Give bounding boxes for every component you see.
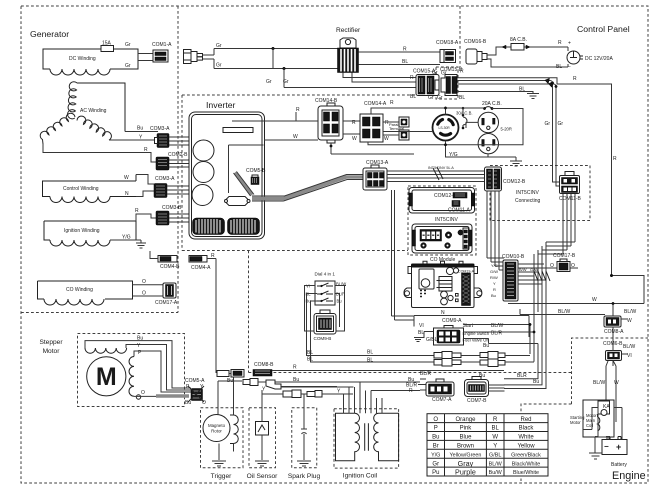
COM15-B dashed box: [436, 67, 458, 99]
svg-text:+: +: [616, 442, 621, 452]
svg-text:Gr: Gr: [283, 79, 289, 85]
oil sensor wires and ground: [261, 390, 263, 460]
wires between bullet groups: [461, 356, 534, 363]
LEGEND-TABLE: [427, 414, 548, 477]
svg-text:Y: Y: [137, 343, 141, 349]
rectifier output wires: [359, 52, 441, 65]
svg-text:+: +: [568, 41, 571, 47]
MID-WIRES: [307, 276, 547, 389]
ground battery: [589, 437, 602, 460]
svg-text:W: W: [592, 297, 597, 303]
svg-text:Bu: Bu: [483, 343, 489, 349]
control winding coil: [50, 197, 110, 203]
display unit 2: [412, 224, 472, 253]
svg-text:COM12-B: COM12-B: [503, 179, 526, 185]
small circle terminal: [136, 395, 140, 399]
circle 3: [192, 185, 213, 206]
svg-text:BL: BL: [367, 350, 373, 356]
generator section border: [21, 6, 178, 313]
trigger coil: [230, 415, 238, 444]
svg-text:G/BL: G/BL: [426, 337, 438, 343]
rectifier component: [338, 38, 359, 73]
svg-text:COM8-A: COM8-A: [604, 329, 624, 335]
trigger wires and ground: [218, 377, 234, 460]
svg-text:Bu: Bu: [137, 126, 143, 132]
connector COM7-A: [426, 379, 454, 396]
svg-text:Yellow/Green: Yellow/Green: [450, 452, 482, 458]
displays dashed box: [408, 186, 476, 255]
svg-text:Gr: Gr: [441, 71, 447, 77]
ENGINE-SWITCH: [414, 316, 538, 350]
svg-text:R: R: [613, 156, 617, 162]
ignition coil core: [365, 423, 369, 451]
connector COM4-A: [189, 256, 207, 263]
svg-text:White: White: [518, 435, 534, 441]
svg-text:Magneto: Magneto: [208, 423, 226, 428]
svg-text:COM5-B: COM5-B: [246, 168, 266, 174]
grille 2: [228, 218, 260, 235]
svg-text:Bu: Bu: [432, 435, 439, 441]
spark plug cap connector: [266, 380, 337, 389]
wire Gr top run: [214, 48, 338, 50]
CO-MODULE: [404, 257, 482, 316]
receptacle LS-30R: [433, 115, 459, 141]
svg-text:15A: 15A: [102, 41, 112, 47]
svg-text:Stepper: Stepper: [39, 339, 63, 346]
svg-text:Blue/White: Blue/White: [513, 470, 539, 476]
wire from COM4-A down: [207, 259, 216, 374]
flat connector pair above trigger: [217, 370, 244, 378]
inverter body: [189, 112, 265, 239]
BLR long wire: [370, 370, 504, 372]
svg-text:BL: BL: [367, 358, 373, 364]
svg-text:8A C.B.: 8A C.B.: [510, 37, 527, 43]
wire R ignition: [136, 214, 156, 221]
svg-text:Y/G: Y/G: [431, 452, 440, 458]
svg-text:20A C.B.: 20A C.B.: [482, 101, 502, 107]
svg-text:R: R: [296, 107, 300, 113]
svg-text:COM8-B: COM8-B: [254, 362, 274, 368]
svg-text:R: R: [573, 76, 577, 82]
GENERATOR-SECTION: [38, 41, 190, 307]
wire Bu: [125, 131, 158, 133]
svg-text:Bu: Bu: [479, 373, 485, 379]
ignition winding coil: [50, 240, 110, 246]
wire R over receptacles: [371, 108, 433, 135]
connector COM12-B: [485, 167, 502, 191]
wires inverter to COM14-B: [264, 112, 318, 140]
svg-text:BL: BL: [307, 357, 313, 363]
CO winding box: [38, 281, 133, 299]
svg-text:COM9-A: COM9-A: [442, 318, 462, 324]
svg-text:INT5CINV: INT5CINV: [435, 217, 458, 223]
circle 1: [193, 140, 214, 161]
AC winding right diagonal coil: [77, 116, 111, 140]
COM13-AREA: [363, 160, 487, 320]
svg-text:COM7-B: COM7-B: [467, 398, 487, 404]
wire W: [136, 175, 154, 185]
DISPLAYS: [409, 188, 475, 254]
svg-text:Bu: Bu: [185, 400, 191, 406]
svg-text:BL/W: BL/W: [624, 309, 637, 315]
wire W down from long run: [612, 304, 614, 315]
ENGINE-AREA: [534, 330, 636, 459]
svg-text:Green/Black: Green/Black: [511, 452, 541, 458]
circle 2: [193, 162, 214, 183]
svg-text:Gr: Gr: [266, 79, 272, 85]
TOP-HARNESS: [184, 37, 618, 276]
svg-text:COM9-B: COM9-B: [314, 336, 332, 341]
svg-text:W: W: [352, 136, 357, 142]
svg-text:Control Winding: Control Winding: [63, 186, 99, 192]
svg-text:AC Winding: AC Winding: [80, 108, 107, 114]
svg-text:Gr: Gr: [216, 63, 222, 69]
svg-text:Purple: Purple: [455, 468, 476, 477]
svg-text:R: R: [293, 365, 297, 371]
CO winding coil: [44, 299, 104, 305]
svg-text:COM2-B: COM2-B: [168, 152, 188, 158]
svg-text:Rotor: Rotor: [211, 429, 222, 434]
COM7-CONNECTORS: [406, 371, 505, 404]
wire Y/G run: [413, 153, 415, 155]
svg-text:Gr: Gr: [437, 95, 443, 101]
svg-text:COM1-A: COM1-A: [152, 42, 172, 48]
ground control panel: [510, 157, 522, 166]
svg-text:Trigger: Trigger: [211, 473, 232, 480]
oval connector on inverter bottom: [225, 197, 251, 206]
wires O to COM17-A: [133, 285, 166, 296]
svg-text:Y/G: Y/G: [449, 152, 458, 158]
svg-text:Rectifier: Rectifier: [336, 27, 361, 34]
wires to COM1-A: [138, 54, 153, 61]
svg-text:Motor: Motor: [43, 348, 61, 355]
svg-text:COM6-B: COM6-B: [603, 341, 623, 347]
svg-text:BL/W: BL/W: [558, 309, 571, 315]
svg-text:Spark Plug: Spark Plug: [288, 473, 321, 480]
svg-text:BL/W: BL/W: [489, 461, 503, 467]
svg-text:W: W: [627, 318, 632, 324]
svg-text:CO Module: CO Module: [430, 257, 456, 263]
svg-text:COM17-A: COM17-A: [155, 300, 178, 306]
DC winding coil: [50, 69, 110, 75]
svg-text:COM17-B: COM17-B: [553, 253, 576, 259]
svg-text:O: O: [142, 291, 146, 297]
svg-text:Bu: Bu: [533, 379, 539, 385]
connector COM8-B mate: [253, 370, 272, 377]
connector COM17-A: [163, 283, 176, 298]
svg-text:Yellow: Yellow: [517, 444, 535, 450]
svg-text:BL/R: BL/R: [491, 331, 503, 337]
svg-text:BL: BL: [418, 330, 424, 336]
svg-text:COM10-B: COM10-B: [502, 254, 525, 260]
svg-text:DC Winding: DC Winding: [69, 56, 96, 62]
hatch marks on bundle: [433, 167, 443, 180]
svg-text:Black/White: Black/White: [512, 461, 540, 467]
svg-text:COM14-A: COM14-A: [364, 101, 387, 107]
AC winding left diagonal coil: [40, 113, 75, 144]
svg-text:Bu/W: Bu/W: [489, 470, 503, 476]
svg-text:R/W: R/W: [490, 275, 498, 280]
svg-text:M: M: [96, 363, 117, 391]
wires down to motor: [605, 361, 616, 423]
BL wires from dial down: [307, 294, 435, 363]
trigger dashed box: [201, 408, 244, 468]
svg-text:Gr: Gr: [428, 95, 434, 101]
svg-text:Generator: Generator: [30, 29, 69, 39]
svg-text:G/W: G/W: [490, 269, 498, 274]
stepper motor dashed box: [78, 334, 185, 407]
svg-text:O: O: [433, 417, 438, 423]
RIGHT-WIRING: [485, 167, 645, 347]
wires from COM13-A down: [392, 190, 415, 320]
svg-text:INT5CINV 5L A: INT5CINV 5L A: [428, 166, 454, 170]
thick bundle from COM5-B down: [235, 173, 252, 196]
connector COM8-A: [604, 314, 627, 347]
oil sensor dashed box: [249, 408, 276, 468]
mid-bottom section border: [249, 251, 572, 373]
svg-text:COM3-A: COM3-A: [155, 176, 175, 182]
wire Y/G with ground: [110, 239, 136, 241]
svg-text:R: R: [135, 208, 139, 214]
wire loop around dial: [305, 286, 347, 332]
svg-text:COM16-B: COM16-B: [464, 39, 487, 45]
svg-text:−: −: [604, 442, 609, 451]
svg-text:R: R: [409, 388, 413, 394]
svg-text:5-20R: 5-20R: [501, 127, 512, 132]
DC winding box: [43, 49, 138, 69]
svg-text:Y: Y: [262, 387, 266, 393]
svg-text:Oil Sensor: Oil Sensor: [247, 473, 279, 480]
connector COM7-B: [465, 377, 489, 397]
ground G/BL: [414, 338, 422, 342]
svg-text:R: R: [144, 147, 148, 153]
svg-text:Gr: Gr: [216, 43, 222, 49]
svg-text:VI: VI: [627, 353, 632, 359]
svg-text:Y/G: Y/G: [491, 263, 498, 268]
ignition coil secondary: [374, 413, 399, 461]
svg-text:Ignition Winding: Ignition Winding: [64, 228, 100, 234]
svg-text:Gr: Gr: [432, 70, 438, 76]
ignition winding box: [44, 221, 136, 240]
svg-text:Y: Y: [493, 444, 497, 450]
svg-text:Bu: Bu: [491, 293, 496, 298]
wire Gr lower run: [214, 68, 338, 70]
svg-text:Inverter: Inverter: [206, 100, 236, 110]
svg-text:Start: Start: [463, 323, 474, 329]
battery wires: [583, 407, 622, 440]
svg-text:Motor: Motor: [570, 420, 581, 425]
wire Y: [109, 139, 158, 141]
svg-text:COM7-A: COM7-A: [432, 397, 452, 403]
INT5CINV connecting dashed box: [490, 166, 590, 221]
wire from COM4-B left: [150, 251, 158, 259]
svg-text:BL: BL: [307, 350, 313, 356]
spark plug dashed box: [292, 408, 317, 468]
svg-text:Gr: Gr: [125, 63, 131, 69]
svg-text:COM11-B: COM11-B: [559, 196, 582, 202]
thick wire bundle to COM5-A: [156, 394, 189, 398]
svg-text:W: W: [614, 380, 619, 386]
relay KA: [598, 401, 610, 414]
svg-text:R: R: [493, 417, 498, 423]
svg-text:Gr: Gr: [558, 121, 564, 127]
left wire bundle into engine area: [533, 329, 535, 331]
wires into ignition coil area: [344, 382, 383, 400]
svg-text:VI: VI: [419, 323, 424, 329]
svg-text:O: O: [550, 263, 554, 269]
svg-text:Red: Red: [520, 417, 531, 423]
svg-text:INT5CINV: INT5CINV: [516, 190, 539, 196]
svg-text:Black: Black: [519, 426, 535, 432]
R wire long to engine: [457, 78, 612, 276]
generator output plug: [184, 49, 215, 69]
svg-text:DC 12V/20A: DC 12V/20A: [585, 56, 613, 62]
svg-text:R: R: [352, 120, 356, 126]
svg-text:COM3-A: COM3-A: [150, 126, 170, 132]
DIAL-4IN1: [305, 272, 347, 342]
stepper wires Bu Y P: [85, 341, 191, 392]
control panel Gr bus: [458, 81, 560, 187]
svg-text:BL: BL: [410, 94, 416, 100]
svg-text:R: R: [460, 69, 464, 75]
BL/W wire to COM8-A: [520, 309, 605, 315]
INVERTER-BLOCK: [189, 112, 363, 239]
wires below COM11-B: [538, 194, 575, 254]
svg-text:BL/W: BL/W: [491, 323, 504, 329]
trigger magneto rotor: [203, 415, 230, 442]
oil sensor body: [256, 422, 269, 436]
svg-text:Br: Br: [433, 444, 439, 450]
thick bundle inverter to control panel: [252, 177, 363, 199]
svg-text:P: P: [434, 426, 438, 432]
svg-text:O: O: [202, 400, 206, 406]
svg-text:Y: Y: [493, 281, 496, 286]
svg-text:Orange: Orange: [455, 417, 476, 423]
ground ignition winding: [136, 240, 146, 248]
svg-text:R: R: [558, 40, 562, 46]
svg-text:BL/R: BL/R: [420, 371, 432, 377]
connector COM11-B: [560, 172, 580, 194]
connector COM9-B: [314, 310, 336, 334]
svg-text:R: R: [403, 47, 407, 53]
svg-text:O: O: [571, 263, 575, 269]
svg-text:R: R: [493, 287, 496, 292]
display unit 1: [409, 188, 475, 214]
inner wire loop: [229, 145, 264, 193]
STEPPER-BOTTOM-SECTION: [85, 336, 399, 467]
rectifier lower wires: [343, 73, 416, 83]
wire N: [136, 191, 154, 197]
starting motor box: [583, 400, 614, 437]
svg-text:CO Winding: CO Winding: [66, 287, 93, 293]
svg-text:O: O: [142, 279, 146, 285]
control panel section border: [459, 6, 461, 67]
svg-text:Pink: Pink: [460, 426, 473, 432]
svg-text:O: O: [141, 390, 145, 396]
svg-text:COM4-B: COM4-B: [160, 264, 180, 270]
receptacle wires: [368, 108, 523, 157]
svg-text:COM3-B: COM3-B: [162, 205, 182, 211]
ground trigger: [212, 461, 226, 466]
long W wire: [508, 276, 644, 304]
svg-text:Engine: Engine: [612, 470, 646, 482]
svg-text:Gray: Gray: [458, 459, 474, 468]
svg-text:BL/W: BL/W: [593, 380, 606, 386]
svg-text:BL: BL: [459, 95, 465, 101]
svg-text:BL/W: BL/W: [623, 344, 636, 350]
svg-text:Control Panel: Control Panel: [577, 24, 630, 34]
ignition coil dashed box: [334, 409, 399, 468]
svg-text:Brown: Brown: [457, 444, 474, 450]
svg-text:Y/G: Y/G: [122, 235, 131, 241]
inverter section border: [182, 95, 436, 251]
motor coil: [598, 414, 600, 431]
ignition coil top wires: [344, 400, 383, 413]
vent slot: [223, 128, 253, 133]
svg-text:BL: BL: [492, 426, 500, 432]
svg-text:Dial 4 in 1: Dial 4 in 1: [315, 272, 336, 277]
receptacle 5-20R duplex: [478, 112, 498, 132]
fuse 15A: [101, 46, 114, 52]
svg-text:LS-30R: LS-30R: [439, 126, 451, 130]
wires below COM12-B: [487, 191, 504, 270]
CONTROL-PANEL-MID: [264, 98, 523, 166]
svg-text:BL: BL: [402, 59, 408, 65]
svg-text:Ignition Coil: Ignition Coil: [343, 473, 378, 480]
verticals right of engine switch: [504, 276, 546, 389]
wires out of COM10-B right: [518, 264, 546, 284]
svg-text:Blue: Blue: [459, 435, 472, 441]
svg-text:BLR: BLR: [517, 373, 527, 379]
bullet pair group 1: [434, 352, 461, 360]
svg-text:Gr: Gr: [432, 461, 439, 467]
bullet pair group 2: [480, 352, 505, 360]
svg-text:N: N: [125, 191, 129, 197]
wires from COM13-A right: [387, 171, 487, 182]
svg-text:W: W: [293, 134, 298, 140]
spark plug symbol: [301, 394, 307, 461]
AC winding: [77, 83, 125, 132]
svg-text:COM18-A: COM18-A: [436, 40, 459, 46]
engine switch connector: [434, 326, 464, 346]
svg-text:Connecting: Connecting: [515, 198, 541, 204]
svg-text:Battery: Battery: [611, 462, 627, 468]
battery: [602, 437, 627, 455]
svg-text:W: W: [384, 136, 389, 142]
svg-text:Gr: Gr: [125, 42, 131, 48]
control winding box: [43, 175, 137, 197]
MID-CONNECTOR-ROW: [150, 251, 420, 398]
wire R: [43, 144, 156, 162]
svg-text:W: W: [124, 175, 129, 181]
ignition coil primary: [336, 413, 360, 461]
engine dashed box: [521, 338, 648, 481]
motor M circle: [87, 357, 126, 396]
svg-text:R: R: [410, 75, 414, 81]
svg-text:G/BL: G/BL: [489, 452, 501, 458]
wires right of COM7-B: [489, 385, 505, 391]
svg-text:W: W: [492, 435, 498, 441]
wires right of COM15-B: [457, 91, 504, 93]
svg-text:COM11-A: COM11-A: [448, 208, 471, 214]
connector COM4-B: [158, 256, 177, 263]
stepper winding coil: [85, 348, 127, 353]
svg-text:COM4-A: COM4-A: [191, 265, 211, 271]
bullet pair mid: [283, 390, 301, 398]
svg-text:R: R: [390, 100, 394, 106]
svg-text:Pu: Pu: [432, 470, 439, 476]
stepper vertical coil: [129, 357, 134, 397]
